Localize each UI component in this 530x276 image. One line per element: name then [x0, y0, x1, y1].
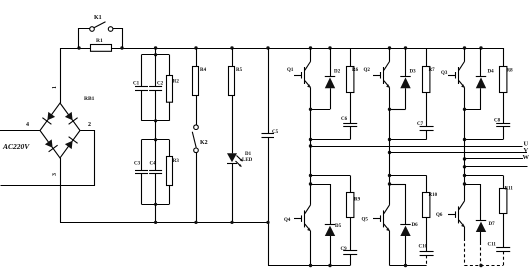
- resistor R2: [167, 55, 180, 121]
- svg-text:2: 2: [88, 122, 91, 128]
- wire R5 to LED: [232, 95, 234, 153]
- bridge diode lower-left: [45, 139, 58, 151]
- diode D2 (top freewheel): [325, 46, 341, 109]
- wire bridge bottom down: [60, 158, 62, 222]
- wire bottom rail Q5 cell: [390, 265, 427, 267]
- capacitor C4: [149, 140, 162, 205]
- node Q6 branch junctions: [463, 174, 466, 177]
- bridge diode upper-right: [65, 112, 78, 124]
- capacitor C1: [133, 55, 148, 121]
- diode D5 (bottom freewheel): [311, 184, 342, 266]
- svg-text:AC220V: AC220V: [2, 142, 30, 151]
- svg-text:R11: R11: [505, 187, 514, 192]
- switch K1: [90, 27, 95, 32]
- capacitor C8 (snubber): [494, 93, 510, 140]
- svg-text:R3: R3: [173, 159, 180, 164]
- diode D4 (top freewheel): [476, 46, 494, 109]
- wire bank2 bottom connector: [142, 204, 170, 206]
- bridge rectifier RB1: [40, 103, 80, 158]
- capacitor C3: [134, 140, 148, 205]
- svg-text:Q1: Q1: [287, 68, 294, 73]
- svg-text:D2: D2: [334, 70, 341, 75]
- svg-text:R2: R2: [173, 80, 180, 85]
- resistor R5: [232, 48, 234, 66]
- svg-text:C10: C10: [419, 245, 428, 250]
- svg-text:W: W: [523, 154, 530, 161]
- node Q4 branch junctions: [309, 174, 312, 177]
- svg-text:C1: C1: [133, 82, 140, 87]
- wire AC input top: [0, 130, 40, 132]
- resistor R4: [196, 48, 198, 66]
- wire between banks: [155, 121, 157, 140]
- svg-text:R10: R10: [429, 193, 438, 198]
- wire R4 to K2: [196, 95, 198, 125]
- bridge diode lower-right: [65, 137, 78, 149]
- resistor R8 (snubber): [500, 48, 514, 93]
- wire phase line U: [311, 146, 523, 148]
- capacitor C11: [488, 213, 511, 266]
- svg-text:C3: C3: [134, 162, 141, 167]
- wire bank1 bottom connector: [142, 120, 170, 122]
- node rail R4: [194, 46, 197, 49]
- resistor R10: [390, 176, 438, 218]
- capacitor C5: [268, 48, 270, 134]
- svg-text:D7: D7: [489, 222, 496, 227]
- LED D1: [227, 153, 237, 162]
- svg-text:R4: R4: [200, 68, 207, 73]
- svg-text:C9: C9: [341, 247, 348, 252]
- node junction right of R1: [120, 46, 123, 49]
- wire leg2 phase vertical: [389, 109, 391, 205]
- svg-text:C2: C2: [157, 82, 164, 87]
- svg-text:C5: C5: [272, 130, 279, 135]
- svg-text:C6: C6: [341, 117, 348, 122]
- IGBT Q3 (top): [441, 46, 466, 109]
- wire corner down to inverter bottom rail: [268, 222, 270, 265]
- diode D6 (bottom freewheel): [390, 184, 419, 266]
- wire leg3 phase vertical: [464, 109, 466, 201]
- resistor R7 (snubber): [423, 48, 436, 93]
- svg-text:LED: LED: [242, 158, 253, 163]
- svg-text:Q6: Q6: [436, 213, 443, 218]
- wire LED to bottom rail: [232, 163, 234, 222]
- svg-text:C11: C11: [488, 243, 497, 248]
- node rail R5: [230, 46, 233, 49]
- svg-text:R5: R5: [236, 68, 243, 73]
- resistor R3: [167, 140, 180, 205]
- node rail C5: [266, 46, 269, 49]
- wire snubber jog to phase node: [390, 139, 427, 141]
- svg-text:1: 1: [52, 86, 58, 89]
- IGBT Q5 (bottom): [362, 205, 390, 266]
- node junction left of R1: [77, 46, 80, 49]
- svg-text:D6: D6: [412, 223, 419, 228]
- svg-text:R6: R6: [352, 68, 359, 73]
- svg-text:R9: R9: [354, 198, 361, 203]
- capacitor C9: [341, 217, 358, 266]
- diode D7 (bottom freewheel): [465, 184, 496, 266]
- svg-text:K1: K1: [94, 15, 102, 21]
- switch K1 branch wire: [79, 29, 90, 49]
- IGBT Q1 (top): [287, 46, 312, 109]
- svg-text:K2: K2: [200, 140, 208, 146]
- IGBT Q2 (top): [364, 46, 392, 109]
- bridge diode upper-left: [42, 112, 55, 124]
- svg-text:V: V: [524, 147, 529, 154]
- wire bank2 top connector: [142, 139, 170, 141]
- svg-text:R1: R1: [96, 38, 103, 44]
- wire emitter-diode connector Q3: [465, 109, 482, 111]
- resistor R9: [311, 176, 361, 218]
- wire rail to bank1: [155, 48, 157, 55]
- svg-text:Q4: Q4: [284, 218, 291, 223]
- wire phase line V: [390, 152, 528, 154]
- svg-text:D1: D1: [245, 152, 252, 157]
- wire node 2 to lower AC return: [1, 131, 95, 186]
- node Q5 branch junctions: [388, 174, 391, 177]
- svg-text:R7: R7: [429, 68, 436, 73]
- svg-text:D4: D4: [488, 70, 495, 75]
- svg-text:D3: D3: [410, 70, 417, 75]
- svg-text:C4: C4: [150, 162, 157, 167]
- capacitor C10: [419, 217, 434, 266]
- svg-text:C8: C8: [494, 119, 501, 124]
- resistor R11: [465, 176, 514, 214]
- wire bottom rail Q4 cell: [268, 265, 350, 267]
- diode D3 (top freewheel): [400, 46, 416, 109]
- svg-text:3: 3: [52, 173, 58, 176]
- wire bank1 top connector: [142, 54, 170, 56]
- node rail-bank: [154, 46, 157, 49]
- svg-text:R8: R8: [507, 69, 514, 74]
- wire snubber jog to phase node: [311, 139, 351, 141]
- switch K2: [194, 125, 199, 130]
- svg-text:Q2: Q2: [364, 68, 371, 73]
- svg-text:4: 4: [26, 122, 29, 128]
- svg-text:Q5: Q5: [362, 218, 369, 223]
- IGBT Q4 (bottom): [284, 205, 311, 266]
- wire phase line W: [465, 158, 524, 160]
- svg-text:D5: D5: [335, 224, 342, 229]
- capacitor C7 (snubber): [417, 93, 434, 140]
- capacitor C6 (snubber): [341, 93, 357, 140]
- wire emitter-diode connector Q2: [390, 109, 406, 111]
- resistor R6 (snubber): [347, 48, 359, 93]
- wire K2 to bottom rail: [196, 153, 198, 223]
- resistor R1: [91, 45, 112, 52]
- wire leg1 phase vertical: [310, 109, 312, 205]
- wire snubber jog to phase node: [465, 139, 504, 141]
- top rail: [60, 48, 503, 50]
- wire bridge top to rail: [60, 48, 62, 103]
- capacitor C2: [149, 55, 164, 121]
- wire aux line: [465, 166, 528, 168]
- wire bank2 to bottom rail: [155, 204, 157, 222]
- svg-text:Q3: Q3: [441, 71, 448, 76]
- IGBT Q6 (bottom): [436, 201, 465, 266]
- wire bottom left rail: [60, 222, 268, 224]
- svg-text:RB1: RB1: [84, 96, 95, 102]
- wire emitter-diode connector Q1: [311, 109, 331, 111]
- wire bottom rail Q6 cell: [465, 265, 504, 267]
- svg-text:C7: C7: [417, 122, 424, 127]
